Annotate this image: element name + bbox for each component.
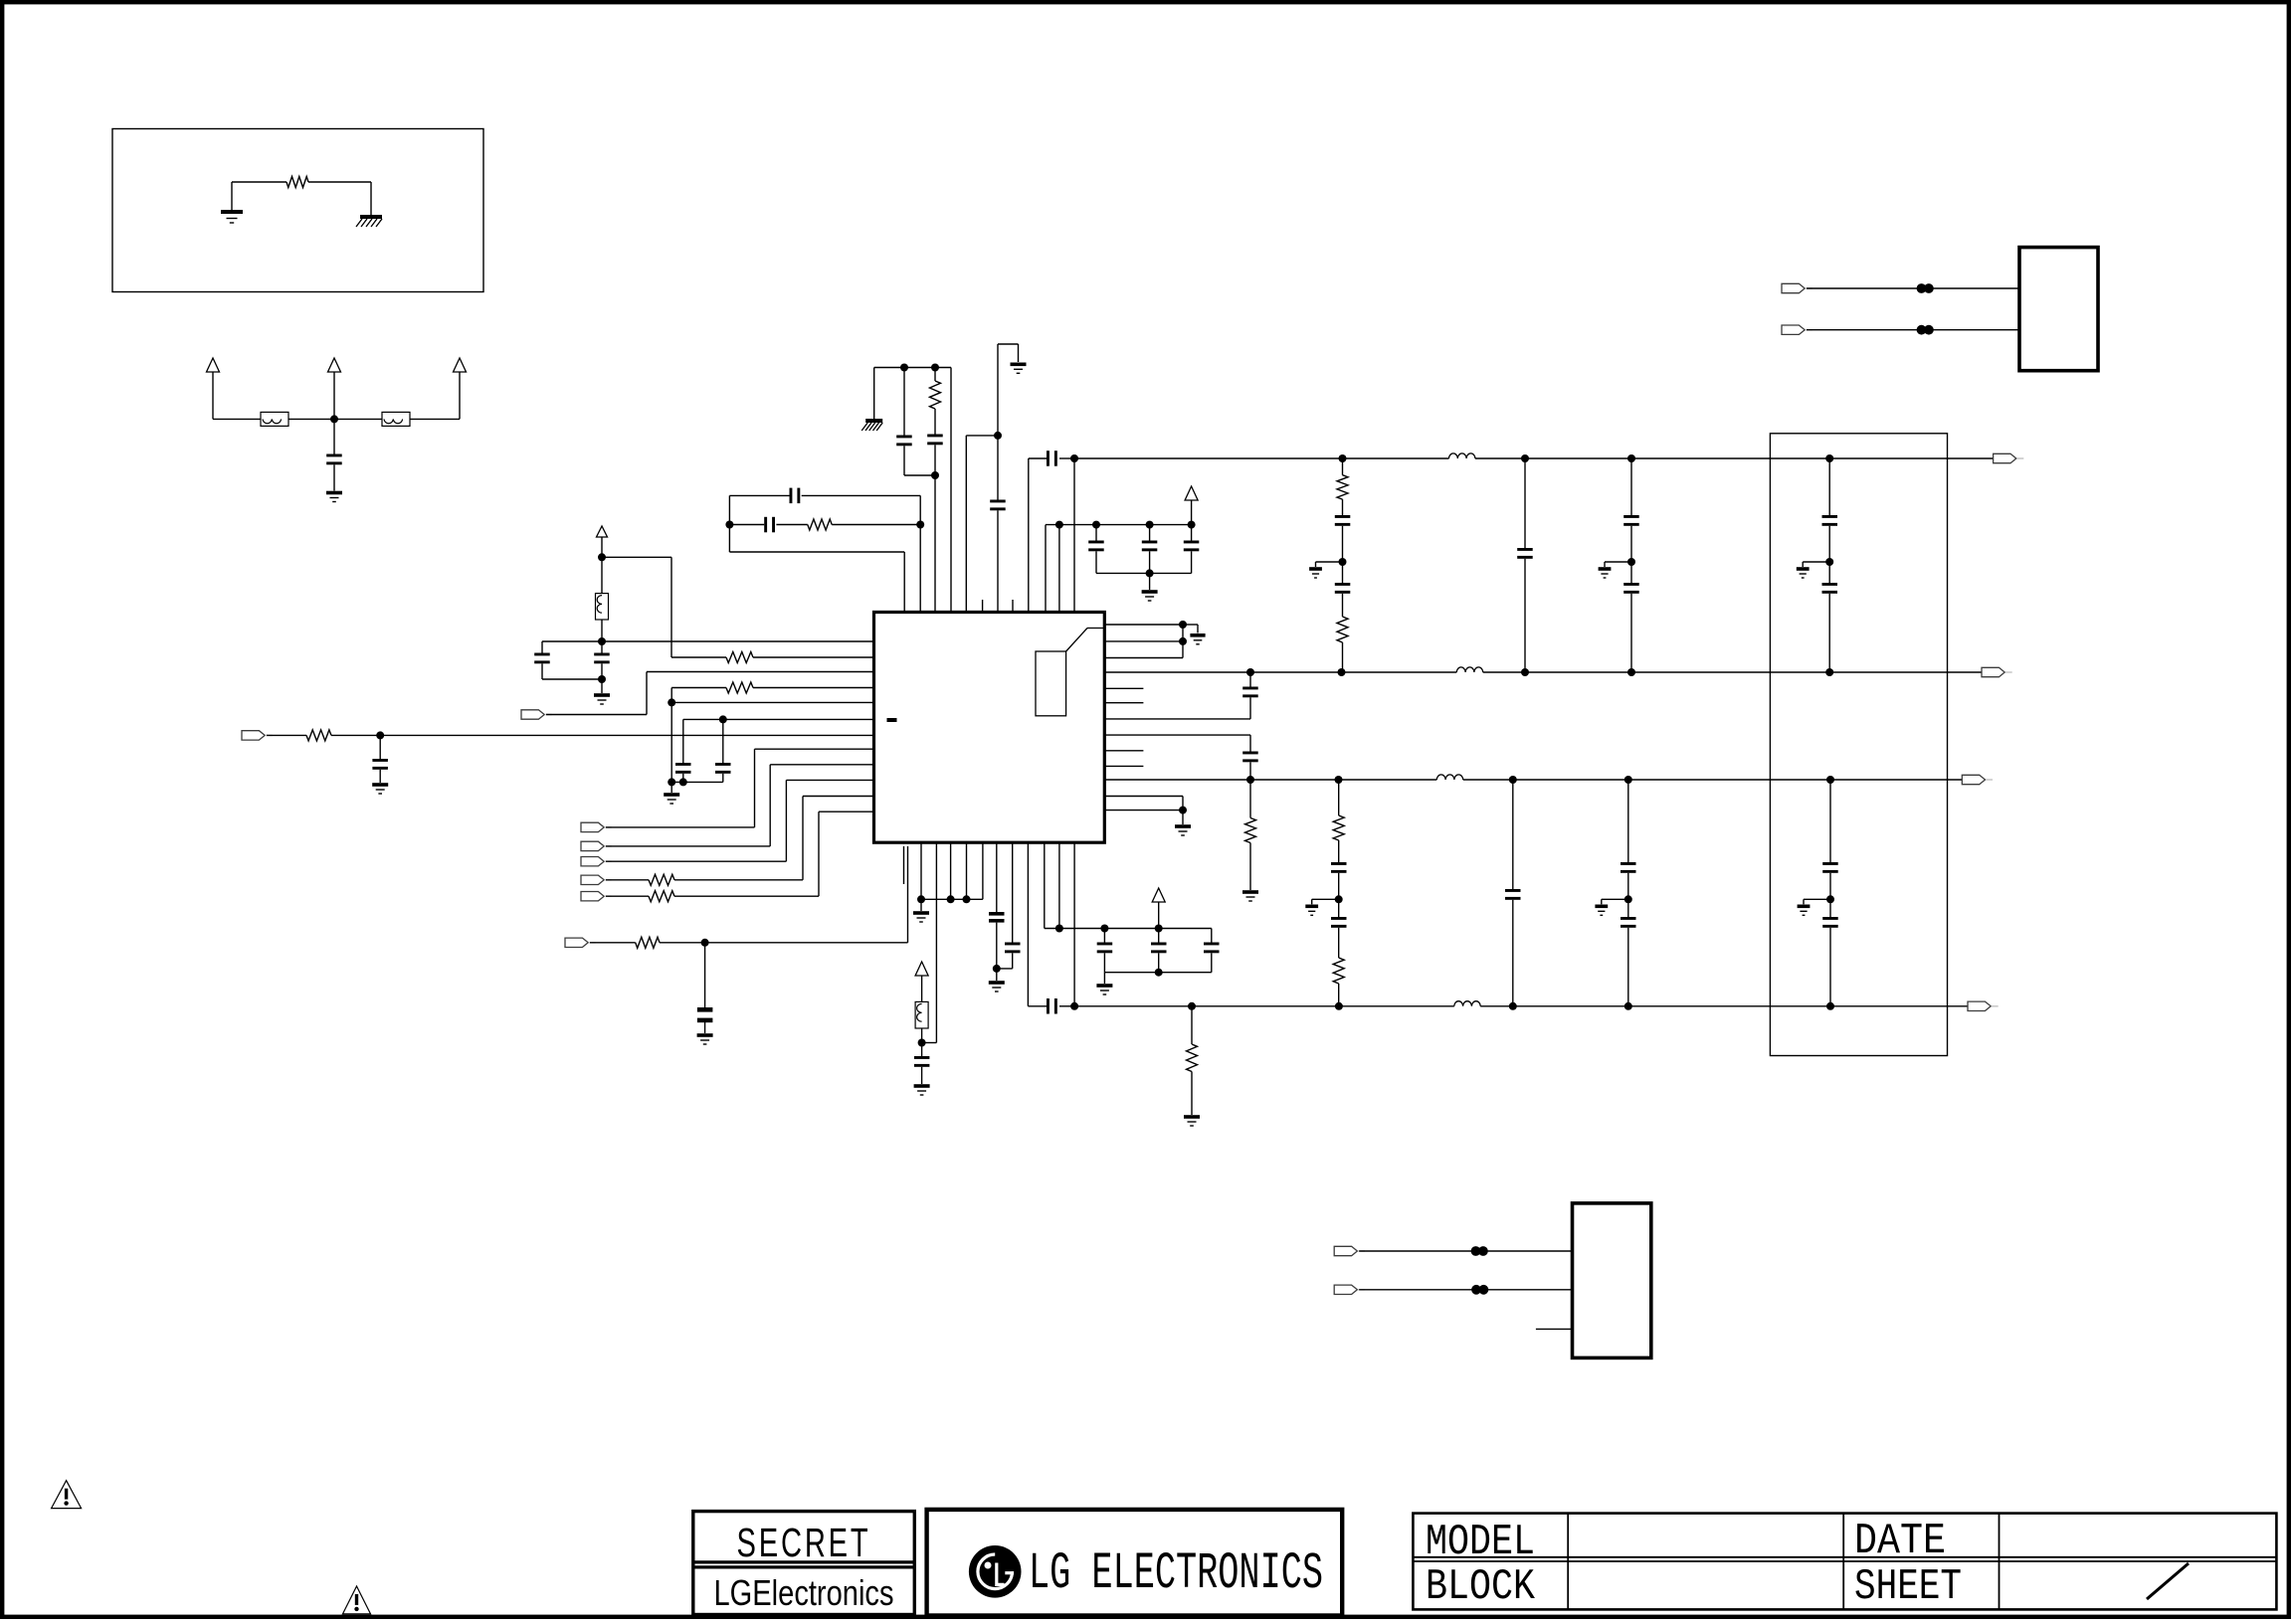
svg-text:LG ELECTRONICS: LG ELECTRONICS xyxy=(1029,1544,1323,1603)
svg-text:BLOCK: BLOCK xyxy=(1426,1562,1535,1612)
svg-text:LGElectronics: LGElectronics xyxy=(714,1572,894,1613)
svg-text:MODEL: MODEL xyxy=(1426,1518,1535,1567)
svg-text:DATE: DATE xyxy=(1854,1517,1946,1566)
svg-text:SHEET: SHEET xyxy=(1854,1562,1962,1612)
svg-text:SECRET: SECRET xyxy=(737,1520,871,1565)
